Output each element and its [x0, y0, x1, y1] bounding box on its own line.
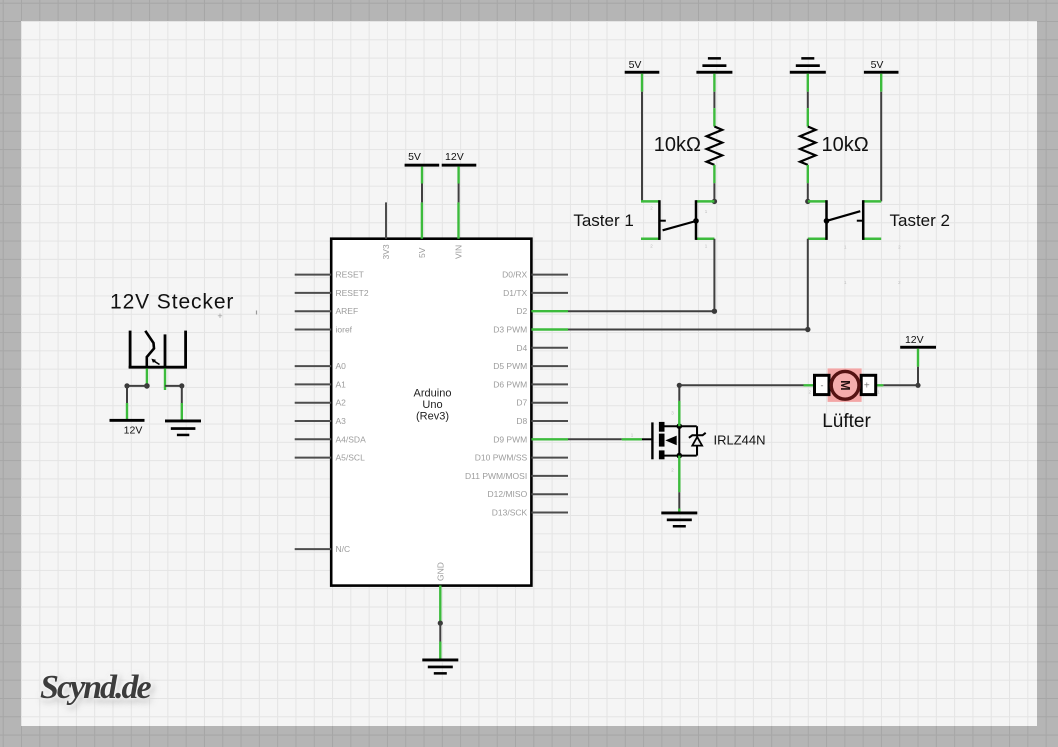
- svg-text:10kΩ: 10kΩ: [822, 134, 869, 156]
- wire ground to R1: [713, 92, 715, 108]
- power 5V (above Arduino): [405, 151, 440, 183]
- svg-text:IRLZ44N: IRLZ44N: [714, 433, 766, 448]
- barrel jack J1: [129, 311, 257, 369]
- svg-text:A0: A0: [336, 361, 347, 371]
- wire R1 to taster 1: [712, 183, 717, 204]
- svg-text:2: 2: [671, 468, 674, 473]
- svg-text:5V: 5V: [408, 151, 421, 163]
- wire R2 to taster 2: [805, 183, 810, 204]
- wire 5V to Arduino: [421, 184, 423, 203]
- svg-text:+: +: [864, 381, 870, 392]
- power 12V (above Arduino): [442, 151, 477, 183]
- svg-text:3: 3: [671, 411, 674, 416]
- svg-text:ioref: ioref: [336, 325, 353, 335]
- svg-text:A4/SDA: A4/SDA: [336, 434, 367, 444]
- svg-text:A1: A1: [336, 379, 347, 389]
- svg-text:2: 2: [650, 206, 653, 211]
- svg-text:1: 1: [705, 244, 708, 249]
- pushbutton S1 Taster 1: [573, 200, 714, 248]
- transistor Q1 IRLZ44N: [622, 401, 766, 492]
- svg-text:VIN: VIN: [454, 245, 464, 259]
- svg-text:Uno: Uno: [422, 399, 442, 411]
- svg-text:(Rev3): (Rev3): [416, 411, 449, 423]
- svg-text:1: 1: [844, 245, 847, 250]
- svg-text:12V: 12V: [124, 425, 143, 437]
- svg-text:D8: D8: [516, 416, 527, 426]
- power 12V (right): [900, 334, 936, 367]
- power 5V (taster 1 column): [625, 59, 660, 92]
- wire jack pin 1: [124, 368, 149, 403]
- svg-text:RESET2: RESET2: [336, 288, 369, 298]
- svg-text:3V3: 3V3: [381, 244, 391, 259]
- wire taster 2 to D3: [568, 239, 811, 332]
- wire 5V to taster 2: [880, 92, 882, 202]
- svg-text:1: 1: [877, 390, 880, 395]
- wire VIN to Arduino: [458, 184, 460, 203]
- ground (below MOSFET): [661, 509, 697, 528]
- wire 12V to motor: [883, 367, 920, 388]
- svg-text:Taster 2: Taster 2: [890, 211, 950, 230]
- Arduino Uno U1: [295, 202, 568, 622]
- resistor R2 10k: [800, 108, 869, 183]
- wire 5V to taster 1: [641, 92, 643, 202]
- svg-text:1: 1: [844, 280, 847, 285]
- wire Arduino GND down: [438, 621, 443, 642]
- svg-text:Arduino: Arduino: [414, 388, 452, 400]
- ground (inverted, above R1): [696, 57, 732, 92]
- svg-text:RESET: RESET: [336, 270, 364, 280]
- svg-text:2: 2: [809, 390, 812, 395]
- svg-text:D9 PWM: D9 PWM: [493, 434, 527, 444]
- svg-text:D13/SCK: D13/SCK: [492, 508, 528, 518]
- svg-text:D3 PWM: D3 PWM: [493, 325, 527, 335]
- svg-text:Lüfter: Lüfter: [822, 411, 871, 432]
- svg-text:1: 1: [631, 433, 634, 438]
- svg-text:12V: 12V: [445, 151, 464, 163]
- svg-text:D6 PWM: D6 PWM: [493, 379, 527, 389]
- svg-text:A2: A2: [336, 398, 347, 408]
- svg-text:D10 PWM/SS: D10 PWM/SS: [475, 453, 528, 463]
- svg-text:N/C: N/C: [336, 544, 351, 554]
- svg-text:D5 PWM: D5 PWM: [493, 361, 527, 371]
- svg-text:D4: D4: [516, 343, 527, 353]
- svg-text:10kΩ: 10kΩ: [654, 134, 701, 156]
- ground (below Arduino): [422, 642, 458, 675]
- svg-text:+: +: [217, 311, 222, 321]
- motor M1 Luefter: [804, 368, 884, 432]
- svg-text:5V: 5V: [871, 59, 884, 71]
- svg-text:A5/SCL: A5/SCL: [336, 453, 366, 463]
- wire taster 1 to D2: [568, 239, 717, 314]
- svg-text:12V: 12V: [905, 334, 924, 346]
- svg-text:12V Stecker: 12V Stecker: [110, 290, 234, 313]
- wire jack pin 2: [165, 368, 184, 403]
- svg-text:2: 2: [650, 244, 653, 249]
- wire D9 to MOSFET gate: [568, 438, 622, 440]
- svg-text:M: M: [838, 380, 852, 390]
- power 5V (taster 2 column): [864, 59, 899, 92]
- ground (inverted, above R2): [790, 57, 826, 92]
- watermark Scynd.de: [40, 669, 150, 707]
- svg-text:5V: 5V: [417, 247, 427, 258]
- wire MOSFET source to ground: [678, 492, 680, 508]
- svg-text:2: 2: [898, 245, 901, 250]
- svg-text:2: 2: [898, 280, 901, 285]
- svg-text:5V: 5V: [629, 59, 642, 71]
- resistor R1 10k: [654, 108, 722, 183]
- wire ground to R2: [807, 92, 809, 108]
- wire MOSFET drain to motor: [677, 383, 804, 401]
- svg-text:GND: GND: [436, 562, 446, 581]
- svg-text:A3: A3: [336, 416, 347, 426]
- svg-text:D0/RX: D0/RX: [502, 270, 527, 280]
- svg-text:D7: D7: [516, 398, 527, 408]
- svg-text:AREF: AREF: [336, 306, 359, 316]
- svg-text:1: 1: [705, 209, 708, 214]
- svg-text:D1/TX: D1/TX: [503, 288, 527, 298]
- svg-text:D11 PWM/MOSI: D11 PWM/MOSI: [465, 471, 527, 481]
- ground (stecker): [165, 403, 201, 436]
- power 12V (stecker): [110, 403, 145, 437]
- svg-text:D12/MISO: D12/MISO: [488, 489, 528, 499]
- svg-text:Taster 1: Taster 1: [573, 211, 633, 230]
- svg-text:D2: D2: [516, 306, 527, 316]
- svg-text:-: -: [821, 380, 824, 390]
- pushbutton S2 Taster 2: [808, 200, 950, 285]
